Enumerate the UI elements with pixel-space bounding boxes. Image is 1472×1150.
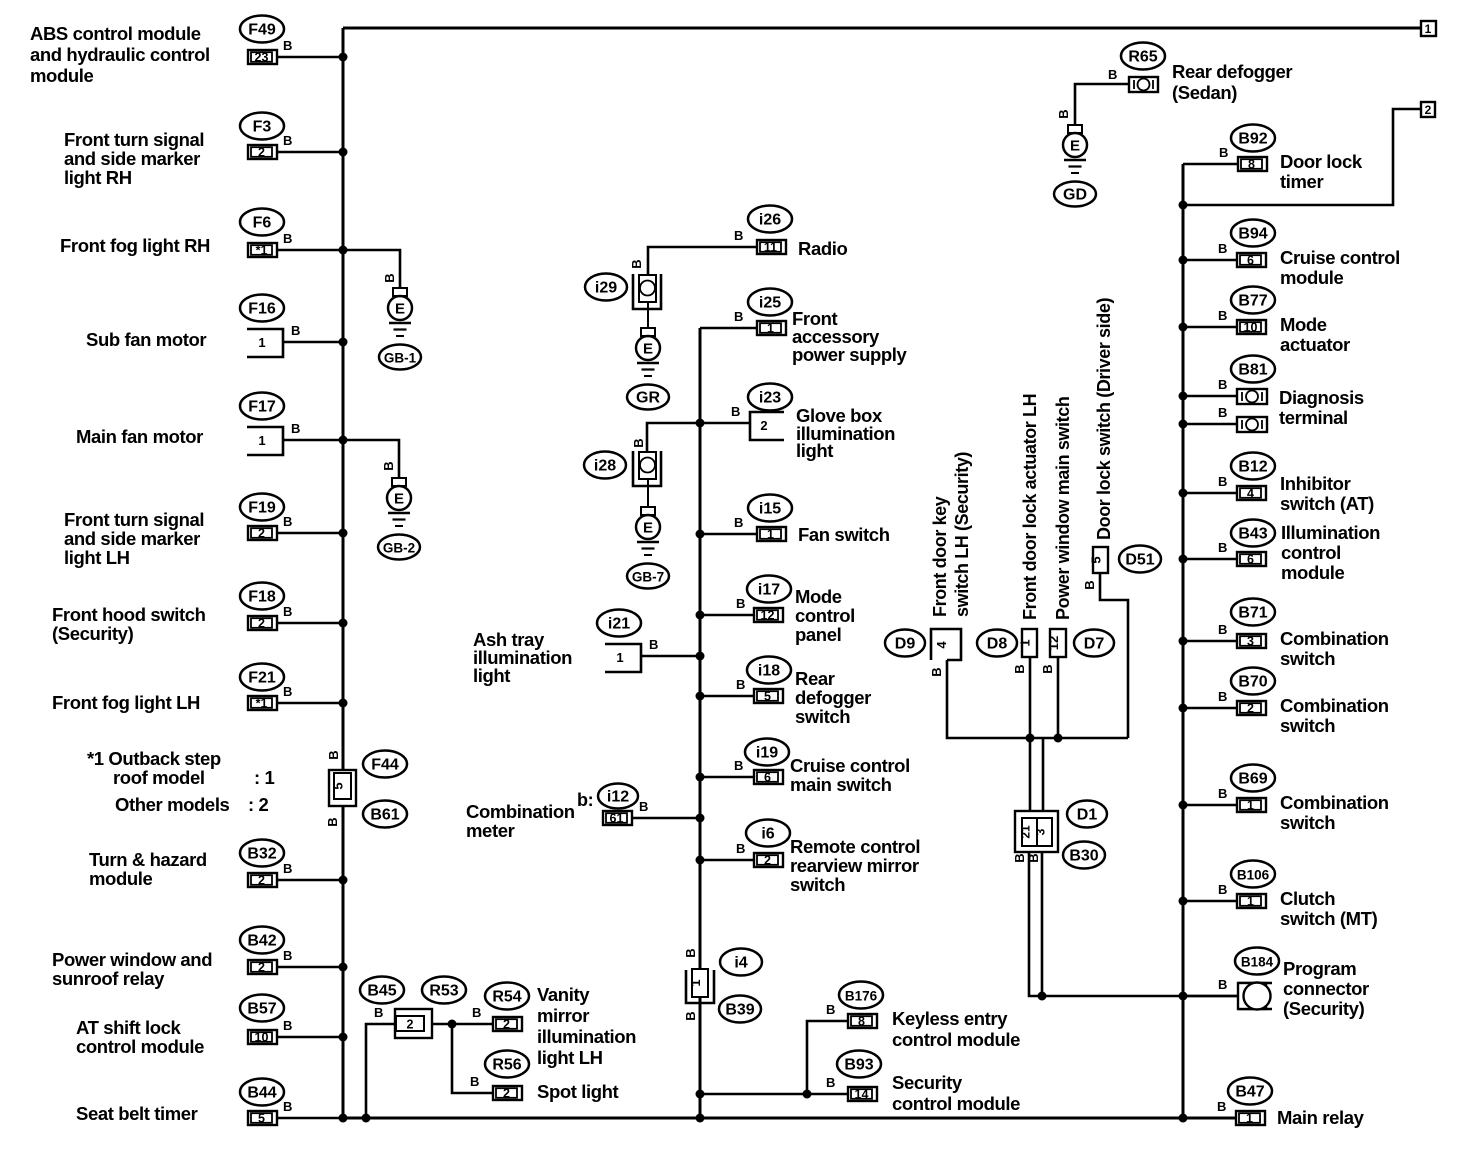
connector i26 (radio) [748,206,792,233]
svg-text:sunroof relay: sunroof relay [52,968,165,989]
svg-text:B: B [1219,145,1228,160]
svg-text:1: 1 [767,322,774,336]
svg-text:switch LH (Security): switch LH (Security) [952,452,972,617]
svg-text:Combination: Combination [1280,695,1389,716]
ground GB-1 [393,288,407,296]
connector B42 (power window and sunroof relay) [240,927,284,954]
svg-text:mirror: mirror [537,1005,589,1026]
svg-text:6: 6 [1247,553,1254,567]
svg-text:i29: i29 [595,280,617,297]
svg-text:F6: F6 [253,215,272,232]
svg-text:and side marker: and side marker [64,528,200,549]
svg-text:B106: B106 [1237,868,1270,883]
svg-text:(Sedan): (Sedan) [1172,82,1237,103]
connector B93 (security control module) [837,1051,881,1078]
svg-text:: 2: : 2 [248,794,269,815]
svg-text:2: 2 [407,1018,414,1032]
ground GD [1068,125,1082,133]
svg-text:3: 3 [1247,635,1254,649]
svg-text:F3: F3 [253,119,272,136]
svg-text:Fan switch: Fan switch [798,524,890,545]
connector F44/B61 inline [329,770,356,806]
connector i29 inline [633,274,661,309]
svg-text:B47: B47 [1235,1084,1264,1101]
svg-text:B69: B69 [1238,771,1267,788]
connector B106 (clutch switch MT) [1231,861,1275,888]
svg-text:switch: switch [1280,715,1335,736]
svg-text:23: 23 [255,51,269,65]
svg-text:Door lock switch (Driver side): Door lock switch (Driver side) [1094,298,1114,540]
wire to ground GB-1 [343,250,400,288]
svg-text:Radio: Radio [798,238,847,259]
svg-text:6: 6 [764,771,771,785]
svg-text:B93: B93 [844,1057,873,1074]
connector B92 (door lock timer) [1231,125,1275,152]
connector B176 (keyless entry control module) [839,982,883,1009]
svg-text:1: 1 [258,433,265,448]
svg-text:21: 21 [1019,825,1033,839]
svg-text:Turn & hazard: Turn & hazard [89,849,207,870]
svg-text:switch (MT): switch (MT) [1280,908,1378,929]
svg-text:10: 10 [255,1031,269,1045]
svg-text:meter: meter [466,820,515,841]
svg-text:B: B [283,231,292,246]
svg-text:4: 4 [934,641,949,649]
svg-text:B70: B70 [1238,674,1267,691]
connector F21 (front fog light LH) [240,664,284,691]
svg-text:B: B [1012,664,1027,673]
wire D7 down [1057,657,1060,738]
svg-text:F21: F21 [248,670,276,687]
svg-text:and side marker: and side marker [64,148,200,169]
svg-text:1: 1 [1018,639,1033,646]
svg-text:ABS control module: ABS control module [30,23,201,44]
svg-text:D7: D7 [1084,636,1105,653]
svg-text:Inhibitor: Inhibitor [1280,473,1351,494]
connector i18 (rear defogger switch) [747,657,791,684]
svg-text:GB-7: GB-7 [632,570,664,585]
svg-text:B32: B32 [247,846,276,863]
svg-text:and hydraulic control: and hydraulic control [30,44,210,65]
svg-text:61: 61 [610,812,624,826]
svg-text:Main relay: Main relay [1277,1107,1365,1128]
svg-text:1: 1 [1247,799,1254,813]
svg-text:Diagnosis: Diagnosis [1279,387,1364,408]
connector B81 (diagnosis terminal) [1231,356,1275,383]
wire middle ground bus [699,328,702,1118]
svg-text:panel: panel [795,624,841,645]
svg-text:Rear: Rear [795,668,835,689]
svg-text:B: B [734,309,743,324]
svg-text:2: 2 [258,961,265,975]
svg-text:B: B [374,1005,383,1020]
svg-text:B: B [631,438,646,447]
connector i4/B39 inline [686,970,714,1003]
svg-text:control module: control module [892,1029,1020,1050]
svg-text:i18: i18 [758,663,780,680]
svg-text:5: 5 [331,782,346,789]
svg-text:D51: D51 [1125,552,1154,569]
svg-text:i25: i25 [759,295,781,312]
svg-text:Combination: Combination [1280,628,1389,649]
connector B44 (seat belt timer) [240,1079,284,1106]
wire to R54 junction [432,1023,493,1026]
connector B69 (combination switch) [1231,765,1275,792]
svg-text:*1 Outback step: *1 Outback step [87,748,221,769]
connector B94 (cruise control module) [1231,220,1275,247]
connector i6 (remote control rearview mirror switch) [746,820,790,847]
svg-text:B: B [283,1018,292,1033]
svg-text:Front door key: Front door key [930,496,950,617]
svg-text:14: 14 [855,1088,869,1102]
svg-text:actuator: actuator [1280,334,1350,355]
wire rear defogger branch [1075,84,1129,125]
svg-text:F44: F44 [371,757,399,774]
connector i23 (glove box illumination light) [748,384,792,411]
svg-text:light RH: light RH [64,167,132,188]
svg-text:E: E [395,301,405,318]
svg-text:Mode: Mode [1280,314,1327,335]
svg-text:power supply: power supply [792,344,908,365]
connector i17 (mode control panel) [747,576,791,603]
svg-text:R54: R54 [492,989,521,1006]
wire B45 riser [366,1024,395,1118]
wire i29 to ground [647,302,649,328]
svg-text:Main fan motor: Main fan motor [76,426,203,447]
svg-text:R53: R53 [429,983,458,1000]
svg-text:GR: GR [636,390,660,407]
svg-text:Front fog light LH: Front fog light LH [52,692,200,713]
svg-text:2: 2 [1247,702,1254,716]
svg-text:control module: control module [892,1093,1020,1114]
svg-text:illumination: illumination [537,1026,636,1047]
svg-text:5: 5 [764,690,771,704]
svg-text:B: B [1040,664,1055,673]
svg-text:Security: Security [892,1072,963,1093]
wire right ground bus [1182,164,1185,1118]
wire D51 down [1100,573,1128,738]
svg-text:B: B [826,1002,835,1017]
svg-text:i23: i23 [759,390,781,407]
svg-text:B: B [736,677,745,692]
svg-text:Door lock: Door lock [1280,151,1363,172]
svg-text:B: B [326,750,341,759]
svg-text:B: B [1082,580,1097,589]
svg-text:Combination: Combination [466,801,575,822]
svg-text:5: 5 [258,1112,265,1126]
connector D1/B30 inline [1015,811,1058,852]
svg-text:B: B [291,421,300,436]
svg-text:F19: F19 [248,500,276,517]
svg-text:B: B [736,596,745,611]
svg-text:Rear defogger: Rear defogger [1172,61,1292,82]
svg-text:Illumination: Illumination [1281,522,1380,543]
svg-text:2: 2 [1425,103,1432,117]
svg-text:F17: F17 [248,399,276,416]
svg-text:6: 6 [1247,254,1254,268]
svg-text:E: E [643,520,653,537]
svg-text:module: module [89,868,152,889]
svg-text:B176: B176 [845,989,878,1004]
svg-text:B: B [1218,241,1227,256]
svg-text:Spot light: Spot light [537,1081,619,1102]
svg-text:1: 1 [1247,895,1254,909]
svg-text:Cruise control: Cruise control [1280,247,1400,268]
connector R56 (spot light) [485,1051,529,1078]
svg-text:Front door lock actuator LH: Front door lock actuator LH [1020,394,1040,620]
svg-text:terminal: terminal [1279,407,1348,428]
svg-text:1: 1 [688,979,703,986]
connector B12 (inhibitor switch AT) [1231,453,1275,480]
svg-text:R56: R56 [492,1057,521,1074]
svg-text:5: 5 [1089,556,1104,563]
svg-text:i6: i6 [761,826,774,843]
svg-text:B: B [1218,405,1227,420]
svg-text:B: B [734,228,743,243]
svg-text:B39: B39 [725,1002,754,1019]
svg-text:Other models: Other models [115,794,230,815]
svg-text:12: 12 [1046,636,1061,650]
svg-text:E: E [1070,138,1080,155]
svg-text:b:: b: [577,790,593,810]
svg-text:B: B [1218,308,1227,323]
connector F3 (front turn signal RH) [240,113,284,140]
svg-text:switch: switch [790,874,845,895]
svg-text:Power window and: Power window and [52,949,212,970]
svg-text:B: B [639,799,648,814]
svg-text:B: B [1218,622,1227,637]
svg-text:R65: R65 [1128,49,1157,66]
connector i21 (ash tray illumination light) [597,610,641,637]
svg-text:10: 10 [1244,321,1258,335]
connector i28 inline [633,451,661,486]
svg-text:8: 8 [1248,158,1255,172]
svg-text:Cruise control: Cruise control [790,755,910,776]
svg-text:defogger: defogger [795,687,871,708]
svg-text:2: 2 [258,874,265,888]
svg-text:1: 1 [258,335,265,350]
svg-text:F49: F49 [248,22,276,39]
svg-text:connector: connector [1283,978,1369,999]
svg-text:B: B [472,1005,481,1020]
svg-text:B: B [1218,977,1227,992]
ground GR [641,328,655,336]
connector B70 (combination switch) [1231,668,1275,695]
svg-text:B81: B81 [1238,362,1267,379]
svg-text:switch: switch [1280,812,1335,833]
svg-text:2: 2 [503,1087,510,1101]
junction right bus bottom [1179,1114,1188,1123]
svg-text:B: B [283,861,292,876]
svg-text:B: B [1218,474,1227,489]
svg-text:B: B [826,1075,835,1090]
svg-text:1: 1 [616,650,623,665]
svg-text:AT shift lock: AT shift lock [76,1017,182,1038]
svg-text:B: B [283,1099,292,1114]
svg-text:roof model: roof model [113,767,205,788]
connector B47 (main relay) [1228,1078,1272,1105]
svg-text:2: 2 [258,527,265,541]
wire to R56 [452,1024,493,1093]
svg-text:B45: B45 [367,983,396,1000]
svg-text:B: B [381,461,396,470]
svg-text:Vanity: Vanity [537,984,590,1005]
svg-text:B: B [683,948,698,957]
svg-text:B: B [736,841,745,856]
svg-text:4: 4 [1247,487,1254,501]
svg-text:timer: timer [1280,171,1323,192]
svg-text:B57: B57 [247,1001,276,1018]
svg-text:B42: B42 [247,933,276,950]
svg-text:*1: *1 [256,697,268,711]
svg-text:GB-2: GB-2 [383,541,415,556]
svg-text:D1: D1 [1077,807,1098,824]
svg-text:i19: i19 [756,745,778,762]
svg-text:B: B [283,684,292,699]
svg-text:rearview mirror: rearview mirror [790,855,919,876]
svg-text:B12: B12 [1238,459,1267,476]
svg-text:i28: i28 [594,458,616,475]
svg-text:GB-1: GB-1 [384,351,417,366]
svg-text:B: B [734,515,743,530]
junction right bus to terminal 2 [1179,201,1188,210]
svg-text:main switch: main switch [790,774,892,795]
svg-text:*1: *1 [256,244,268,258]
wire glove box branch [647,423,750,451]
wire left ground bus [342,28,345,1118]
wire to ground GB-2 [343,440,399,478]
svg-text:i12: i12 [607,789,629,806]
svg-text:B: B [629,259,644,268]
svg-text:Front turn signal: Front turn signal [64,129,204,150]
svg-text:switch: switch [795,706,850,727]
svg-text:B: B [649,637,658,652]
svg-text:B: B [734,758,743,773]
connector B32 (turn & hazard module) [240,840,284,867]
svg-text:B: B [1218,377,1227,392]
terminal connector 2 [1421,102,1435,117]
svg-text:i17: i17 [758,582,780,599]
svg-text:Keyless entry: Keyless entry [892,1008,1008,1029]
connector F49 (ABS control module) [240,16,284,43]
svg-text:B: B [283,514,292,529]
svg-text:B: B [1218,882,1227,897]
svg-text:control: control [795,605,855,626]
svg-text:B: B [1108,67,1117,82]
svg-text:E: E [643,341,653,358]
svg-text:B43: B43 [1238,526,1267,543]
junction dots door lock bus [1026,734,1035,743]
svg-text:B30: B30 [1069,848,1098,865]
ground GB-7 [641,507,655,515]
svg-text:2: 2 [764,854,771,868]
svg-text:1: 1 [1246,1112,1253,1126]
connector i19 (cruise control main switch) [745,739,789,766]
svg-text:Remote control: Remote control [790,836,920,857]
svg-text:module: module [1280,267,1343,288]
connector F16 (sub fan motor) [240,295,284,322]
svg-text:F18: F18 [248,589,276,606]
svg-text:B71: B71 [1238,605,1267,622]
connector B77 (mode actuator) [1231,287,1275,314]
wire keyless branch [807,1021,848,1094]
svg-text:B: B [1217,1099,1226,1114]
svg-text:2: 2 [258,146,265,160]
svg-text:light LH: light LH [537,1047,603,1068]
svg-text:B: B [1218,786,1227,801]
wire to D1 pin 3 [1042,738,1045,818]
svg-text:B: B [683,1011,698,1020]
svg-text:module: module [1281,562,1344,583]
connector R54 (vanity mirror illumination light LH) [485,983,529,1010]
connector R65 (rear defogger) [1121,43,1165,70]
connector D8 (front door lock actuator LH) [1022,629,1037,657]
svg-text:B61: B61 [370,807,399,824]
connector D7 (power window main switch) [1050,629,1066,657]
svg-text:B: B [1218,689,1227,704]
wire D1 to program connector bus [1029,852,1238,996]
svg-text:: 1: : 1 [254,767,275,788]
svg-text:D8: D8 [987,636,1008,653]
connector i25 (front accessory power supply) [748,289,792,316]
connector B184 (program connector security) [1235,948,1279,975]
svg-text:1: 1 [1425,22,1432,36]
svg-text:i21: i21 [608,616,630,633]
svg-text:Front hood switch: Front hood switch [52,604,206,625]
svg-text:2: 2 [258,617,265,631]
svg-text:Clutch: Clutch [1280,888,1335,909]
connector D51 (door lock switch driver side) [1093,547,1108,573]
svg-text:i4: i4 [734,955,747,972]
svg-text:control module: control module [76,1036,204,1057]
svg-text:B44: B44 [247,1085,276,1102]
junction middle bus bottom [696,1114,705,1123]
svg-text:B: B [283,948,292,963]
connector B43 (illumination control module) [1231,520,1275,547]
svg-text:light: light [473,665,510,686]
svg-text:B: B [325,817,340,826]
connector F17 (main fan motor) [240,393,284,420]
svg-text:B: B [470,1074,479,1089]
connector D9 (front door key switch LH) [931,629,961,660]
svg-text:i15: i15 [759,501,781,518]
svg-text:(Security): (Security) [52,623,134,644]
svg-text:control: control [1281,542,1341,563]
svg-text:switch: switch [1280,648,1335,669]
svg-text:GD: GD [1063,187,1087,204]
svg-text:Front turn signal: Front turn signal [64,509,204,530]
svg-text:B: B [929,667,944,676]
svg-text:B: B [283,604,292,619]
svg-text:B: B [1012,853,1027,862]
svg-text:B: B [382,273,397,282]
connector F18 (front hood switch) [240,583,284,610]
svg-text:B184: B184 [1241,955,1274,970]
connector F19 (front turn signal LH) [240,494,284,521]
terminal connector 1 [1421,21,1436,36]
wire bottom bus [343,1117,1236,1120]
svg-text:light: light [796,440,833,461]
wire D8 down [1029,657,1032,818]
svg-text:1: 1 [767,528,774,542]
svg-text:B94: B94 [1238,226,1267,243]
svg-text:Combination: Combination [1280,792,1389,813]
connector B57 (AT shift lock control module) [240,995,284,1022]
svg-text:B77: B77 [1238,293,1267,310]
svg-text:B: B [283,38,292,53]
svg-text:3: 3 [1034,828,1048,835]
connector B45/R53 inline [395,1009,432,1038]
